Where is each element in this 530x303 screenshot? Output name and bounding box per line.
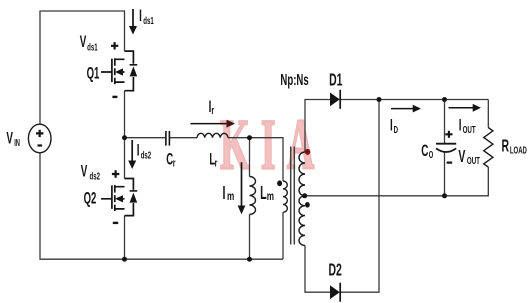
wire primary bottom [282,212,284,259]
svg-text:Np:Ns: Np:Ns [280,70,308,88]
capacitor Co [436,143,456,145]
wire Q2 source to bottom rail [124,216,126,260]
wire top rail [40,11,125,125]
wire secondary bottom to D2 [305,246,330,293]
svg-text:I: I [459,114,462,134]
svg-text:m: m [227,190,234,203]
secondary polarity dot red [305,149,310,155]
inductor Lm [250,177,256,215]
arrow IOUT [449,107,474,109]
Q1 body diode [130,66,138,76]
wire left bottom from VIN to bottom rail [40,153,283,259]
junction node Lr-Lm [247,135,252,140]
svg-text:OUT: OUT [463,123,476,135]
wire secondary top to D1 [305,100,330,153]
svg-text:V: V [80,31,87,51]
svg-text:ds1: ds1 [87,41,98,53]
svg-text:V: V [81,160,88,180]
junction node Q1-Q2 [122,135,127,140]
svg-text:ds2: ds2 [141,149,152,161]
svg-text:O: O [429,149,434,160]
label minus Vds2 [113,222,118,224]
arrow Ids1 [132,9,134,27]
svg-text:r: r [215,157,218,169]
svg-text:IN: IN [14,138,20,149]
svg-text:LOAD: LOAD [510,145,527,156]
wire D1 cathode to output rail [341,99,489,101]
arrow Ids2 [131,140,133,161]
svg-text:D: D [394,123,398,135]
Co minus sign [447,162,453,164]
junction node Co bottom [442,193,447,198]
arrow Im [241,162,243,206]
Q2 source arrow [115,195,123,202]
junction node D1 cathode [377,97,382,102]
svg-text:V: V [458,148,465,168]
wire output top right to RLOAD [487,100,489,128]
svg-text:V: V [6,127,13,147]
transformer secondary winding [299,152,305,245]
label plus Vds1 [111,42,118,49]
primary polarity dot [277,180,282,186]
diode D1 [330,93,340,107]
Q1 source arrow [115,68,123,75]
capacitor Cr [166,131,170,146]
arrow Ir [190,123,226,125]
svg-text:OUT: OUT [467,154,480,166]
svg-text:ds1: ds1 [143,14,154,26]
svg-text:C: C [421,140,428,160]
wire Co top lead [444,100,446,144]
svg-text:D1: D1 [329,71,342,91]
label plus Vds2 [112,170,119,177]
junction node center tap [302,193,307,198]
junction node Lm bottom [247,257,252,262]
junction node Co top [442,97,447,102]
svg-text:m: m [267,190,274,203]
svg-text:KIA: KIA [220,106,325,185]
svg-text:r: r [211,104,214,116]
transformer primary winding [283,181,287,212]
Co plus sign [445,131,452,138]
wire center tap rail [305,167,488,196]
label minus Vds1 [112,96,117,98]
svg-text:Q2: Q2 [84,189,97,207]
resistor RLOAD [484,128,493,168]
wire Co bottom lead [444,152,446,196]
wire Lm branch [249,138,251,177]
svg-text:I: I [390,114,393,134]
wire Cr to Lr [170,137,197,139]
svg-text:I: I [137,139,140,159]
junction node Q2 source rail [122,257,127,262]
inductor Lr [197,133,228,137]
wire Lm bottom [249,215,251,260]
wire D2 cathode to D1 node [341,100,380,293]
wire node to Cr [125,137,166,139]
mosfet Q2 [101,179,133,216]
svg-text:D2: D2 [329,261,342,281]
mosfet Q1 [101,51,133,91]
svg-text:r: r [173,157,176,169]
secondary lower polarity dot [305,202,310,208]
svg-text:Q1: Q1 [87,64,100,82]
transformer core [291,147,295,245]
wire Lr node to primary top [228,138,283,181]
svg-text:I: I [139,5,142,25]
wire Q1 source to Q2 drain [124,91,126,179]
Q2 body diode [130,193,138,203]
svg-text:I: I [223,183,226,204]
svg-text:ds2: ds2 [90,170,101,182]
source VIN [28,124,51,153]
svg-text:R: R [502,137,510,157]
diode D2 [330,285,340,299]
arrow ID [391,108,413,110]
svg-text:L: L [260,183,267,204]
